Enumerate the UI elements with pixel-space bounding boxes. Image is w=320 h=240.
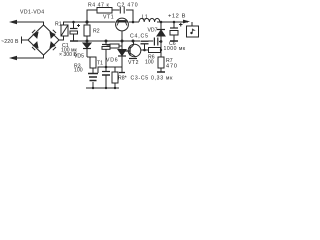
- svg-text:R1: R1: [55, 22, 62, 28]
- svg-text:~220 В: ~220 В: [1, 39, 19, 45]
- svg-text:VT2: VT2: [128, 60, 139, 66]
- svg-text:VD6: VD6: [106, 58, 118, 64]
- svg-text:R8*: R8*: [118, 76, 127, 82]
- svg-text:VD5: VD5: [74, 54, 84, 60]
- svg-text:R4 47 к: R4 47 к: [88, 3, 109, 9]
- svg-text:VT1: VT1: [103, 15, 114, 21]
- svg-text:VD7: VD7: [148, 28, 158, 34]
- svg-text:100: 100: [145, 60, 154, 66]
- svg-text:C3-C5 0,33 мк: C3-C5 0,33 мк: [131, 76, 174, 82]
- svg-text:+12 В: +12 В: [168, 14, 186, 20]
- svg-text:1000 мк: 1000 мк: [164, 46, 186, 52]
- svg-text:R2: R2: [93, 29, 100, 35]
- svg-text:L1: L1: [142, 15, 148, 21]
- svg-text:100: 100: [74, 68, 83, 74]
- svg-text:Т1: Т1: [97, 61, 103, 67]
- svg-text:VD1-VD4: VD1-VD4: [20, 10, 45, 16]
- svg-text:470: 470: [166, 64, 178, 70]
- svg-text:C2 470: C2 470: [117, 3, 138, 9]
- svg-text:C4,C5: C4,C5: [130, 34, 149, 40]
